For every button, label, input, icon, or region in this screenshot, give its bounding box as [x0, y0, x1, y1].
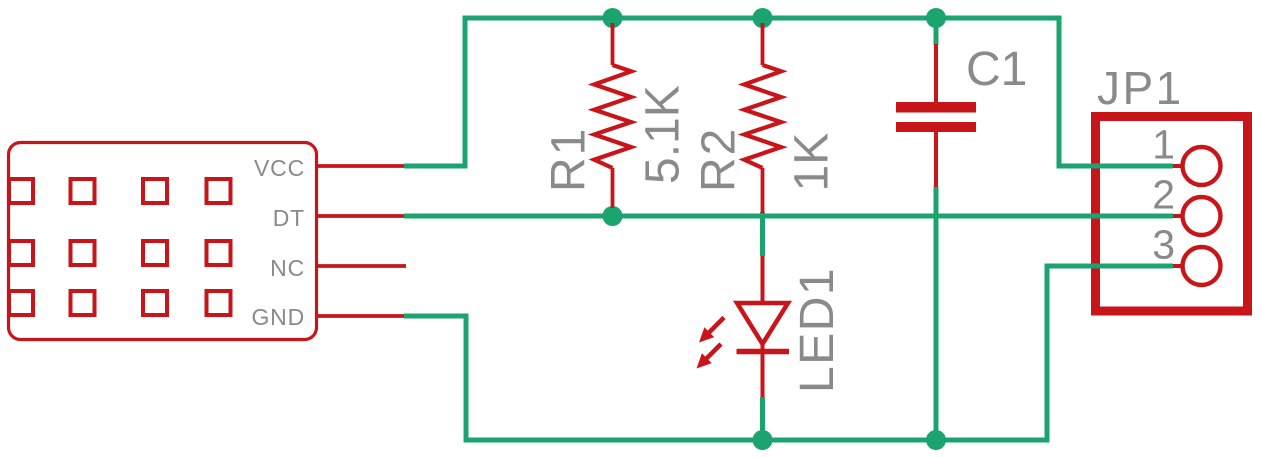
wire C1 top stub — [934, 18, 939, 45]
wire LED1 to bottom rail — [760, 397, 765, 440]
svg-text:JP1: JP1 — [1097, 62, 1184, 114]
LED1 arrow 2 — [697, 344, 722, 369]
svg-text:5.1K: 5.1K — [637, 85, 690, 184]
pin VCC stub — [317, 164, 404, 168]
wire GND net: module GND -> bottom rail -> JP1 pin 3 — [404, 266, 1173, 440]
svg-text:3: 3 — [1152, 222, 1175, 268]
JP1 pin circles — [1183, 147, 1221, 285]
LED1 arrow 1 — [699, 318, 724, 343]
svg-text:1K: 1K — [786, 133, 839, 192]
LED LED1 — [737, 256, 790, 397]
junction dot top R2 — [753, 8, 773, 28]
svg-text:1: 1 — [1152, 122, 1175, 168]
junction dot R1 bottom / DT — [603, 206, 623, 226]
resistor R1 — [594, 23, 631, 208]
sensor module body — [9, 143, 317, 340]
svg-text:DT: DT — [273, 205, 305, 231]
svg-text:R2: R2 — [693, 127, 746, 192]
svg-text:R1: R1 — [543, 127, 596, 192]
connector JP1 — [1096, 117, 1248, 312]
resistor R2 — [744, 23, 781, 213]
svg-text:2: 2 — [1152, 172, 1175, 218]
svg-text:VCC: VCC — [254, 155, 305, 181]
wire R2 to LED1 — [760, 212, 765, 256]
junction dot top R1 — [603, 8, 623, 28]
junction dot LED1 bottom — [753, 430, 773, 450]
pin DT stub — [317, 214, 404, 218]
junction dot top C1 — [926, 8, 946, 28]
capacitor C1 — [896, 44, 976, 187]
svg-text:NC: NC — [270, 255, 305, 281]
pin NC stub — [317, 264, 406, 268]
sensor module grid squares — [9, 179, 231, 315]
svg-text:GND: GND — [251, 304, 305, 330]
svg-text:LED1: LED1 — [791, 267, 844, 393]
pin GND stub — [317, 314, 404, 318]
junction dot C1 bottom — [926, 430, 946, 450]
wire C1 bottom to bottom rail — [934, 186, 939, 440]
wire VCC net: module VCC -> top rail -> JP1 pin 1 — [404, 18, 1173, 166]
wire DT net: module DT -> JP1 pin 2 — [404, 214, 1173, 219]
JP1 pin stubs (red) — [1152, 166, 1182, 266]
svg-text:C1: C1 — [966, 43, 1027, 96]
